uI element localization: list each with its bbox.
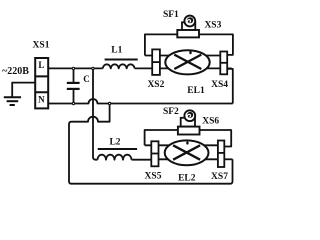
capacitor C1 leads bbox=[73, 68, 75, 82]
node junction branch bbox=[91, 67, 94, 70]
socket XS3 bbox=[177, 30, 199, 37]
starter SF2 bulb bbox=[184, 110, 195, 121]
lamp EL2 bbox=[165, 140, 209, 165]
svg-text:XS1: XS1 bbox=[33, 40, 50, 50]
svg-text:SF1: SF1 bbox=[163, 10, 179, 20]
inductor L1 coil bbox=[103, 64, 135, 68]
node junction C top bbox=[72, 67, 75, 70]
wire L2 to XS5 bbox=[132, 159, 152, 161]
svg-text:L2: L2 bbox=[109, 138, 120, 148]
svg-text:XS7: XS7 bbox=[211, 172, 228, 182]
lamp EL1 bbox=[165, 50, 209, 74]
svg-text:C: C bbox=[83, 74, 90, 84]
wire lamp1 bottom pin line L1 to right corner bbox=[135, 67, 232, 70]
svg-text:~220В: ~220В bbox=[2, 66, 29, 77]
starter SF2 bracket bbox=[181, 118, 195, 127]
wire lamp1 return right vertical bbox=[227, 69, 233, 104]
svg-text:SF2: SF2 bbox=[163, 107, 179, 117]
svg-text:XS2: XS2 bbox=[147, 80, 164, 90]
wire L line from XS1 to L1 bbox=[48, 67, 103, 69]
svg-text:EL1: EL1 bbox=[187, 86, 205, 96]
socket XS7 bbox=[218, 141, 224, 168]
svg-text:EL2: EL2 bbox=[178, 174, 196, 184]
wire lamp2 starter loop bbox=[145, 130, 232, 147]
capacitor C1 plates bbox=[67, 83, 80, 89]
svg-text:XS6: XS6 bbox=[202, 116, 219, 126]
connector XS1 bbox=[35, 58, 48, 108]
wire lamp1 top pin line bbox=[145, 55, 220, 57]
starter SF2 electrode bbox=[187, 112, 193, 118]
starter SF1 bracket bbox=[182, 22, 195, 30]
wire jumper from N junction down-left with hop bbox=[69, 104, 233, 184]
socket XS4 bbox=[220, 52, 227, 75]
wire lamp2 XS7 exit to bottom bbox=[224, 158, 232, 160]
inductor L1 core bar bbox=[105, 59, 138, 61]
svg-text:N: N bbox=[38, 95, 45, 105]
socket XS2 bbox=[152, 49, 160, 75]
svg-text:L1: L1 bbox=[111, 45, 122, 55]
wire branch vertical to L2 bbox=[93, 68, 98, 159]
inductor L2 core bar bbox=[98, 148, 137, 150]
svg-text:XS5: XS5 bbox=[145, 171, 162, 181]
starter SF1 electrode bbox=[187, 17, 193, 23]
ground bbox=[4, 97, 21, 105]
node junction C bottom bbox=[72, 102, 75, 105]
starter SF1 bulb bbox=[184, 16, 195, 27]
socket XS5 bbox=[151, 141, 158, 166]
wire ground branch bbox=[12, 83, 35, 97]
wire lamp2 top pin line bbox=[145, 144, 218, 146]
svg-text:L: L bbox=[38, 60, 44, 70]
socket XS6 bbox=[178, 127, 200, 135]
wire lamp2 bottom pin line XS5 to XS7 bbox=[159, 158, 218, 160]
svg-text:XS4: XS4 bbox=[211, 80, 228, 90]
node junction N branch bbox=[108, 102, 111, 105]
wire lamp1 starter loop bbox=[145, 34, 233, 55]
svg-text:XS3: XS3 bbox=[204, 21, 221, 31]
inductor L2 coil bbox=[98, 155, 132, 160]
wire N line with hop over branch vertical bbox=[48, 99, 233, 104]
